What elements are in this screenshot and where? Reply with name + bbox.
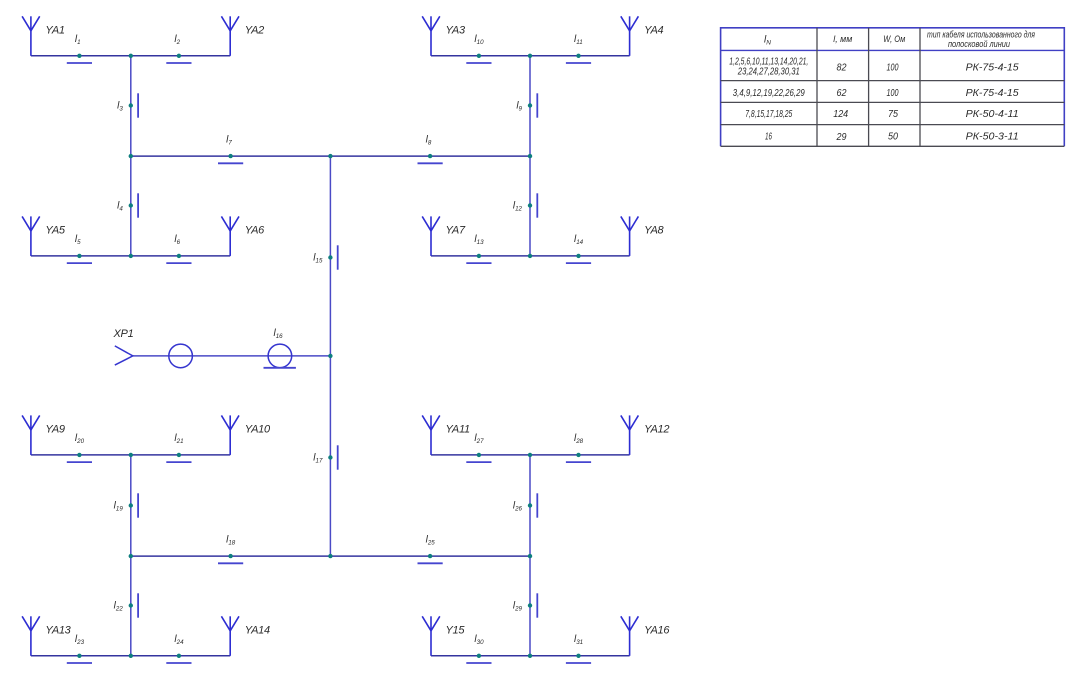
svg-text:50: 50 bbox=[888, 132, 898, 143]
svg-text:РК-75-4-15: РК-75-4-15 bbox=[966, 63, 1019, 74]
svg-text:100: 100 bbox=[887, 63, 899, 74]
line segment l29 node dot bbox=[528, 603, 532, 607]
line segment l10 stripline dash bbox=[466, 62, 491, 64]
line segment l28 node dot bbox=[576, 453, 580, 457]
antenna YA7 bbox=[422, 216, 440, 256]
svg-text:XP1: XP1 bbox=[113, 328, 134, 340]
line segment l23 node dot bbox=[77, 654, 81, 658]
junction node at x=530 y=655.8 bbox=[528, 654, 532, 658]
antenna YA6 bbox=[221, 216, 239, 256]
line segment l29 stripline dash bbox=[536, 593, 538, 617]
line segment l20 stripline dash bbox=[67, 461, 92, 463]
svg-text:YA14: YA14 bbox=[245, 624, 270, 636]
line segment l26 stripline dash bbox=[536, 493, 538, 517]
svg-text:l, мм: l, мм bbox=[833, 34, 852, 45]
svg-text:7,8,15,17,18,25: 7,8,15,17,18,25 bbox=[745, 109, 792, 120]
svg-text:YA1: YA1 bbox=[45, 24, 64, 36]
line segment l3 stripline dash bbox=[137, 93, 139, 117]
line segment l16 coaxial circle bbox=[268, 344, 292, 368]
junction node XP1 trunk bbox=[328, 354, 332, 358]
antenna Y15 bbox=[422, 616, 440, 656]
svg-text:W, Ом: W, Ом bbox=[883, 34, 905, 45]
line segment l4 node dot bbox=[129, 203, 133, 207]
svg-text:YA9: YA9 bbox=[45, 423, 64, 435]
line segment l24 node dot bbox=[177, 654, 181, 658]
svg-text:YA8: YA8 bbox=[644, 224, 664, 236]
antenna YA2 bbox=[221, 16, 239, 56]
svg-text:62: 62 bbox=[837, 88, 847, 99]
svg-text:Y15: Y15 bbox=[446, 624, 466, 636]
line segment l3 node dot bbox=[129, 103, 133, 107]
svg-text:YA3: YA3 bbox=[446, 24, 466, 36]
connector XP1 chevron bbox=[115, 346, 133, 365]
junction node at x=530 y=55.8 bbox=[528, 54, 532, 58]
junction node midtop center bbox=[328, 154, 332, 158]
line segment l21 node dot bbox=[177, 453, 181, 457]
junction node midbottom left bbox=[129, 554, 133, 558]
line segment l7 stripline dash bbox=[218, 162, 243, 164]
coaxial transition circle 1 bbox=[169, 344, 193, 368]
line segment l9 stripline dash bbox=[536, 93, 538, 117]
svg-text:YA2: YA2 bbox=[245, 24, 264, 36]
svg-text:тип кабеля использованного для: тип кабеля использованного для bbox=[927, 30, 1035, 40]
junction node at x=130.8 y=55.8 bbox=[129, 54, 133, 58]
line segment l27 stripline dash bbox=[466, 461, 491, 463]
line segment l30 node dot bbox=[477, 654, 481, 658]
svg-text:16: 16 bbox=[765, 132, 772, 143]
line segment l13 node dot bbox=[477, 254, 481, 258]
line segment l31 stripline dash bbox=[566, 662, 591, 664]
antenna YA10 bbox=[221, 415, 239, 455]
svg-text:РК-75-4-15: РК-75-4-15 bbox=[966, 88, 1019, 99]
junction node midbottom center bbox=[328, 554, 332, 558]
junction node at x=130.8 y=255.9 bbox=[129, 254, 133, 258]
junction node at x=530 y=454.9 bbox=[528, 453, 532, 457]
antenna YA11 bbox=[422, 415, 440, 455]
wire bus YA5-YA6 bbox=[31, 255, 230, 257]
wire bus YA13-YA14 bbox=[31, 655, 230, 657]
svg-text:YA4: YA4 bbox=[644, 24, 663, 36]
line segment l1 node dot bbox=[77, 54, 81, 58]
line segment l6 stripline dash bbox=[166, 262, 191, 264]
wire vertical left branch bus3 to bus4 bbox=[130, 455, 132, 656]
svg-text:YA6: YA6 bbox=[245, 224, 265, 236]
wire bus YA11-YA12 bbox=[431, 454, 630, 456]
antenna YA4 bbox=[621, 16, 639, 56]
line segment l6 node dot bbox=[177, 254, 181, 258]
line segment l25 node dot bbox=[428, 554, 432, 558]
line segment l8 node dot bbox=[428, 154, 432, 158]
wire bus YA1-YA2 bbox=[31, 55, 230, 57]
antenna YA14 bbox=[221, 616, 239, 656]
junction node at x=130.8 y=454.9 bbox=[129, 453, 133, 457]
svg-text:полосковой линии: полосковой линии bbox=[948, 39, 1010, 49]
antenna YA16 bbox=[621, 616, 639, 656]
wire vertical right branch bus3 to bus4 bbox=[529, 455, 531, 656]
line segment l18 stripline dash bbox=[218, 562, 243, 564]
junction node midbottom right bbox=[528, 554, 532, 558]
antenna YA8 bbox=[621, 216, 639, 256]
junction node at x=530 y=255.9 bbox=[528, 254, 532, 258]
svg-text:РК-50-4-11: РК-50-4-11 bbox=[966, 109, 1019, 120]
svg-text:100: 100 bbox=[887, 88, 899, 99]
line segment l4 stripline dash bbox=[137, 193, 139, 217]
line segment l9 node dot bbox=[528, 103, 532, 107]
svg-text:75: 75 bbox=[888, 109, 898, 120]
antenna YA5 bbox=[22, 216, 40, 256]
line segment l11 stripline dash bbox=[566, 62, 591, 64]
line segment l23 stripline dash bbox=[67, 662, 92, 664]
line segment l2 node dot bbox=[177, 54, 181, 58]
wire bus YA9-YA10 bbox=[31, 454, 230, 456]
line segment l30 stripline dash bbox=[466, 662, 491, 664]
junction node midtop left bbox=[129, 154, 133, 158]
line segment l5 stripline dash bbox=[67, 262, 92, 264]
line segment l26 node dot bbox=[528, 503, 532, 507]
svg-text:YA11: YA11 bbox=[446, 423, 470, 435]
line segment l18 node dot bbox=[228, 554, 232, 558]
wire bus YA3-YA4 bbox=[431, 55, 630, 57]
line segment l25 stripline dash bbox=[418, 562, 443, 564]
junction node midtop right bbox=[528, 154, 532, 158]
table cable specifications bbox=[721, 28, 1065, 147]
antenna YA9 bbox=[22, 415, 40, 455]
svg-text:29: 29 bbox=[836, 132, 847, 143]
line segment l17 stripline dash bbox=[337, 445, 339, 469]
svg-text:82: 82 bbox=[837, 63, 847, 74]
line segment l15 stripline dash bbox=[337, 245, 339, 269]
line segment l12 node dot bbox=[528, 203, 532, 207]
line segment l13 stripline dash bbox=[466, 262, 491, 264]
line segment l7 node dot bbox=[228, 154, 232, 158]
wire mid-bottom bus l18-l25 bbox=[131, 555, 530, 557]
line segment l16 stripline dash bbox=[264, 367, 296, 369]
svg-text:124: 124 bbox=[833, 109, 848, 120]
line segment l17 node dot bbox=[328, 455, 332, 459]
svg-text:YA7: YA7 bbox=[446, 224, 466, 236]
antenna YA3 bbox=[422, 16, 440, 56]
line segment l8 stripline dash bbox=[418, 162, 443, 164]
svg-text:YA13: YA13 bbox=[45, 624, 71, 636]
line segment l11 node dot bbox=[576, 54, 580, 58]
svg-text:3,4,9,12,19,22,26,29: 3,4,9,12,19,22,26,29 bbox=[733, 88, 805, 99]
line segment l19 stripline dash bbox=[137, 493, 139, 517]
svg-text:YA12: YA12 bbox=[644, 423, 669, 435]
svg-text:YA5: YA5 bbox=[45, 224, 65, 236]
line segment l31 node dot bbox=[576, 654, 580, 658]
line segment l19 node dot bbox=[129, 503, 133, 507]
line segment l14 stripline dash bbox=[566, 262, 591, 264]
line segment l28 stripline dash bbox=[566, 461, 591, 463]
wire vertical left branch bus1 to bus2 bbox=[130, 56, 132, 256]
line segment l15 node dot bbox=[328, 255, 332, 259]
line segment l10 node dot bbox=[477, 54, 481, 58]
line segment l24 stripline dash bbox=[166, 662, 191, 664]
svg-text:23,24,27,28,30,31: 23,24,27,28,30,31 bbox=[737, 67, 800, 78]
antenna YA1 bbox=[22, 16, 40, 56]
junction node at x=130.8 y=655.8 bbox=[129, 654, 133, 658]
line segment l22 node dot bbox=[129, 603, 133, 607]
line segment l20 node dot bbox=[77, 453, 81, 457]
wire vertical right branch bus1 to bus2 bbox=[529, 56, 531, 256]
line segment l1 stripline dash bbox=[67, 62, 92, 64]
line segment l27 node dot bbox=[477, 453, 481, 457]
antenna YA12 bbox=[621, 415, 639, 455]
wire bus YA7-YA8 bbox=[431, 255, 630, 257]
svg-text:YA10: YA10 bbox=[245, 423, 271, 435]
wire mid-top bus l7-l8 bbox=[131, 155, 530, 157]
wire vertical center trunk bbox=[329, 156, 331, 556]
line segment l2 stripline dash bbox=[166, 62, 191, 64]
wire XP1 feed line bbox=[133, 355, 331, 357]
wire bus Y15-YA16 bbox=[431, 655, 630, 657]
antenna YA13 bbox=[22, 616, 40, 656]
line segment l5 node dot bbox=[77, 254, 81, 258]
line segment l21 stripline dash bbox=[166, 461, 191, 463]
svg-text:YA16: YA16 bbox=[644, 624, 670, 636]
svg-text:РК-50-3-11: РК-50-3-11 bbox=[966, 132, 1019, 143]
line segment l14 node dot bbox=[576, 254, 580, 258]
line segment l12 stripline dash bbox=[536, 193, 538, 217]
line segment l22 stripline dash bbox=[137, 593, 139, 617]
